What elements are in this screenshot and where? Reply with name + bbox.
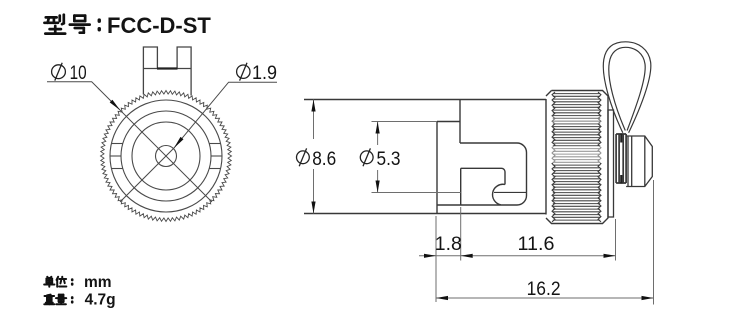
⌀5.3 extension top — [372, 121, 438, 123]
svg-text:4.7g: 4.7g — [85, 292, 116, 309]
knurled nut outline — [546, 91, 608, 224]
slot ledge line — [494, 191, 527, 193]
sleeve left vertical — [436, 122, 438, 214]
sleeve top edge — [437, 121, 460, 123]
knurl ribs — [553, 94, 600, 221]
body top edge — [304, 99, 546, 101]
label ⌀1.9 — [237, 63, 250, 81]
note colon 1 — [71, 279, 74, 284]
svg-text:8.6: 8.6 — [312, 148, 336, 170]
title colon — [98, 20, 101, 30]
svg-text:11.6: 11.6 — [518, 233, 555, 255]
front view circle B r45 — [121, 111, 211, 201]
extension line x460.7 — [460, 207, 462, 261]
wire visible through stem bottom — [620, 175, 622, 184]
svg-text:5.3: 5.3 — [377, 148, 401, 170]
extension line x436 — [435, 216, 437, 302]
barrel with chamfered tip — [626, 136, 652, 187]
arrows ⌀5.3 — [376, 122, 380, 134]
collar rings — [628, 136, 632, 187]
note char 位 — [57, 277, 67, 287]
knurl zigzag left edge — [552, 92, 555, 222]
svg-text:16.2: 16.2 — [527, 278, 561, 300]
solder lug tab outline — [143, 47, 191, 96]
title char 号 — [70, 16, 90, 33]
arrow 11.6 right — [604, 254, 616, 258]
body bottom edge — [304, 213, 546, 215]
svg-text:FCC-D-ST: FCC-D-ST — [107, 13, 211, 38]
dim line 1.8 / 11.6 — [419, 255, 616, 257]
washer stack — [616, 134, 626, 183]
title char 型 — [44, 15, 65, 34]
rear bushing — [608, 110, 614, 217]
label ⌀10 — [52, 63, 66, 81]
wire loop inner — [609, 47, 645, 130]
svg-text:1.8: 1.8 — [435, 233, 462, 255]
note char 重 — [44, 295, 54, 305]
extension line x653.5 — [653, 180, 655, 305]
note char 单 — [44, 277, 54, 287]
extension line x615.5 — [615, 219, 617, 261]
hook C-curl — [493, 184, 505, 205]
label ⌀5.3 — [360, 148, 373, 166]
dim leader line ⌀1.9 — [120, 82, 277, 202]
front view nut flat chords — [111, 143, 122, 145]
tab slot bottom thick — [157, 67, 178, 69]
wire visible through stem top — [620, 134, 622, 143]
front view circle A r56 — [110, 100, 222, 212]
svg-text:10: 10 — [70, 62, 87, 84]
knurl zigzag right edge — [598, 92, 601, 222]
arrows ⌀8.6 — [311, 100, 315, 112]
slot top edge — [461, 168, 505, 184]
dim line 16.2 — [436, 297, 654, 299]
arrow 11.6 left (shared) — [461, 254, 473, 258]
slot left vertical — [460, 168, 462, 205]
step vertical x460 — [459, 100, 461, 144]
wire loop outer — [603, 42, 651, 133]
dim leader line ⌀10 — [47, 82, 212, 202]
svg-text:mm: mm — [84, 274, 112, 291]
arrows 16.2 — [436, 296, 448, 300]
⌀5.3 extension bottom — [372, 192, 461, 194]
front view knurled outer ring — [101, 91, 232, 222]
svg-text:1.9: 1.9 — [252, 62, 277, 84]
light band on ribs — [550, 146, 602, 163]
dim line ⌀5.3 — [377, 122, 379, 193]
cap outline — [437, 143, 527, 205]
arrowhead ⌀10 at knurl edge — [110, 100, 121, 111]
note colon 2 — [71, 297, 74, 302]
front view center hole r10.5 — [156, 146, 177, 167]
dim line ⌀8.6 — [313, 100, 315, 214]
tab step line — [143, 68, 191, 70]
label ⌀8.6 — [297, 148, 310, 166]
arrow 1.8 left — [424, 254, 436, 258]
front view circle C r34 — [132, 122, 200, 190]
note char 量 — [56, 295, 66, 305]
arrowhead ⌀1.9 at center hole — [174, 137, 184, 148]
